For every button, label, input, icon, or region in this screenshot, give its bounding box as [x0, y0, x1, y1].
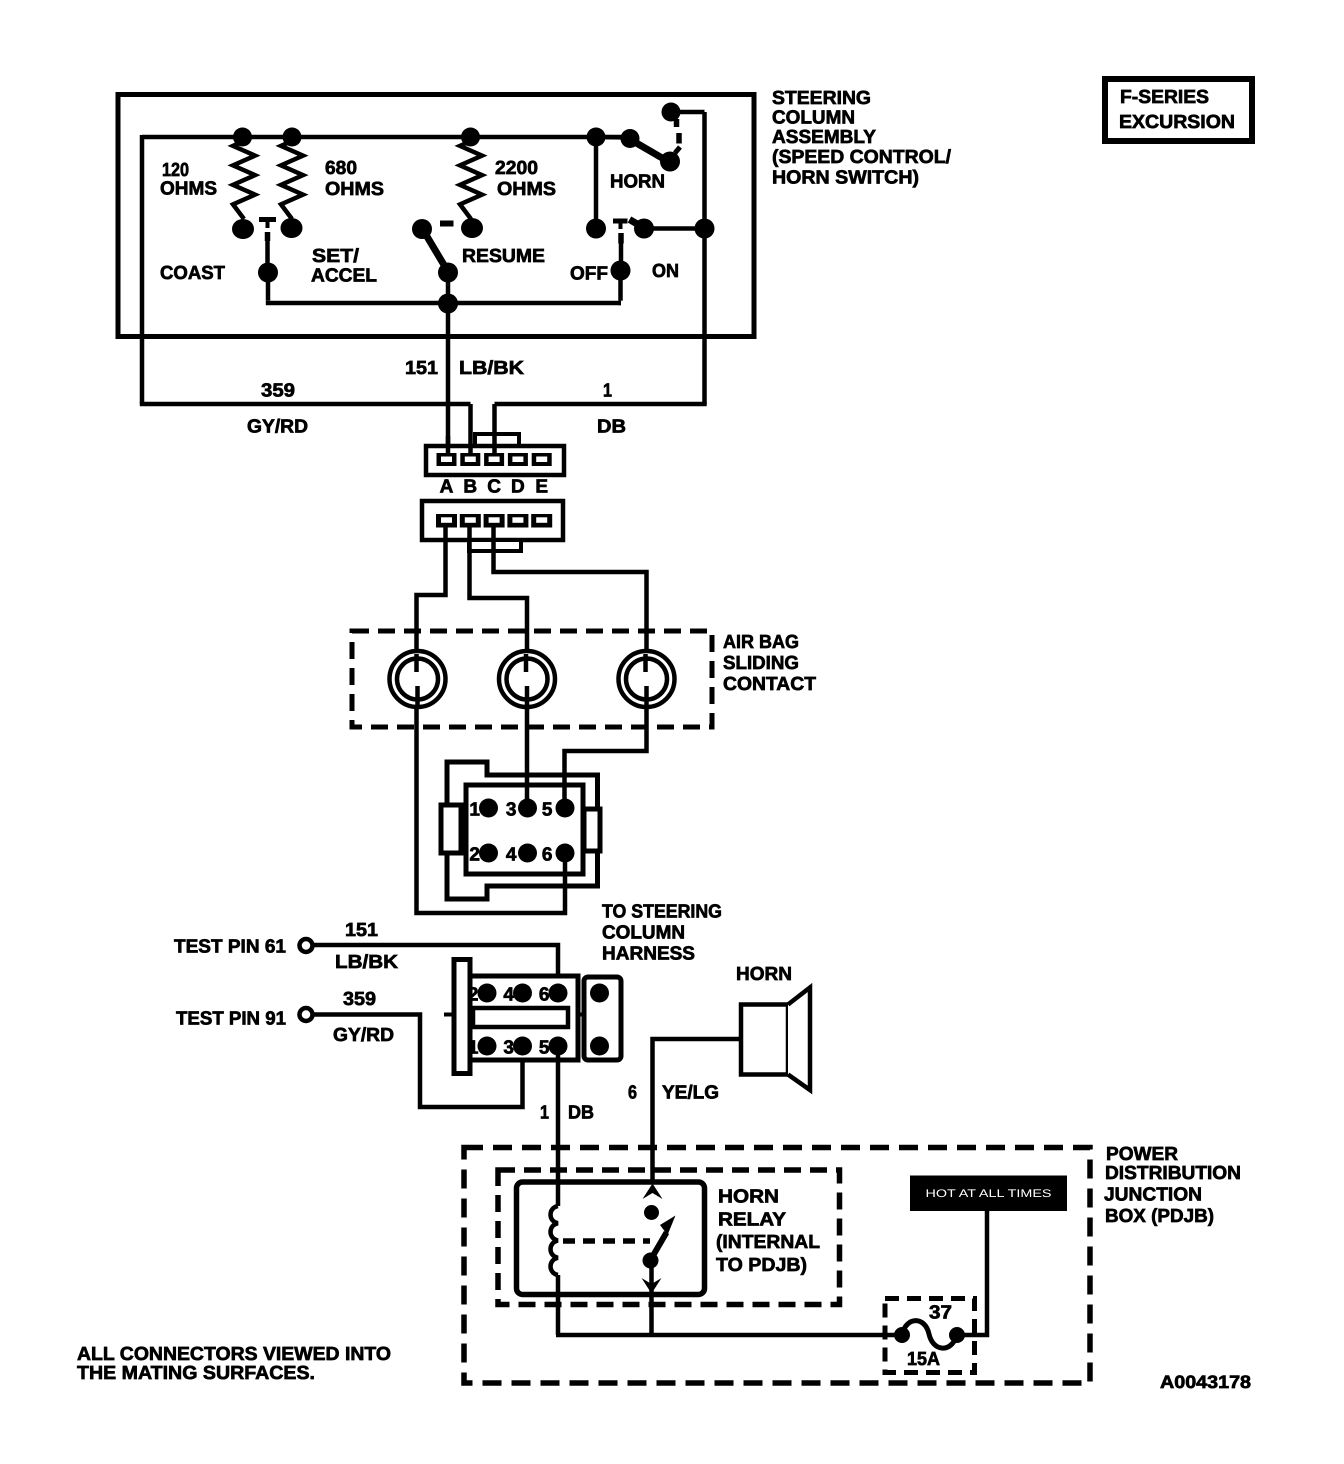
- wire resume pivot to rail: [446, 273, 451, 304]
- F-Series/Excursion badge box: [1105, 79, 1252, 141]
- node off-on left terminal: [586, 219, 606, 239]
- svg-text:1: 1: [540, 1103, 549, 1124]
- wire relay to fuse: [556, 1333, 899, 1338]
- node off: [611, 261, 631, 281]
- svg-text:6: 6: [539, 985, 550, 1006]
- svg-text:ASSEMBLY: ASSEMBLY: [772, 127, 876, 148]
- wire pin B to coil 2: [470, 526, 528, 654]
- resistor R3 2200 OHMS: [460, 141, 482, 219]
- svg-text:F-SERIES: F-SERIES: [1120, 87, 1209, 108]
- node resume pivot: [438, 263, 458, 283]
- wire test pin 91 to pin 3 (359): [313, 1015, 523, 1108]
- relay coil: [551, 1206, 559, 1275]
- wire coil 1 to pin 6: [417, 706, 566, 913]
- wire coil 3 to pin 5: [565, 706, 647, 802]
- pin 4 (C4): [513, 984, 532, 1003]
- resistor R2 680 OHMS: [281, 141, 303, 219]
- air bag sliding contact dashed box: [352, 631, 712, 727]
- coast/set-accel pole contact T-bar: [259, 217, 276, 222]
- svg-text:3: 3: [503, 1038, 514, 1059]
- svg-text:37: 37: [929, 1303, 952, 1324]
- wire 359 GY/RD horizontal: [140, 402, 471, 407]
- svg-text:2: 2: [468, 985, 479, 1006]
- sliding contact coil 3: [619, 651, 675, 707]
- svg-text:ACCEL: ACCEL: [311, 266, 377, 287]
- pin 1 (C4): [478, 1037, 497, 1056]
- svg-text:THE MATING SURFACES.: THE MATING SURFACES.: [77, 1363, 315, 1384]
- relay switch pivot: [643, 1253, 659, 1269]
- svg-text:2: 2: [469, 845, 480, 866]
- svg-text:1: 1: [603, 381, 612, 402]
- svg-text:2200: 2200: [495, 158, 538, 179]
- horn switch blade tip: [660, 152, 680, 172]
- node rail-horn-off junction: [587, 128, 606, 147]
- svg-text:D: D: [511, 477, 525, 498]
- svg-text:CONTACT: CONTACT: [723, 674, 816, 695]
- svg-text:359: 359: [261, 381, 295, 402]
- node rail-R2: [283, 128, 302, 147]
- wire bottom rail: [266, 301, 621, 306]
- svg-text:AIR BAG: AIR BAG: [723, 632, 799, 653]
- node junction 151 wire: [438, 294, 458, 314]
- node on junction: [695, 219, 715, 239]
- svg-text:151: 151: [345, 920, 378, 941]
- pin 1: [479, 799, 498, 818]
- svg-text:DB: DB: [568, 1103, 594, 1124]
- svg-text:4: 4: [506, 845, 517, 866]
- svg-text:5: 5: [542, 800, 553, 821]
- svg-text:HARNESS: HARNESS: [602, 944, 695, 965]
- node horn output: [662, 103, 681, 122]
- svg-text:OHMS: OHMS: [325, 179, 384, 200]
- svg-text:EXCURSION: EXCURSION: [1119, 112, 1235, 133]
- horn relay dashed box: [498, 1170, 840, 1305]
- svg-text:JUNCTION: JUNCTION: [1104, 1185, 1202, 1206]
- svg-text:6: 6: [542, 845, 553, 866]
- test pin 91 terminal: [300, 1008, 313, 1021]
- svg-text:TEST PIN 91: TEST PIN 91: [176, 1009, 286, 1030]
- pin 3: [518, 799, 537, 818]
- wire off down to bottom rail: [618, 271, 623, 301]
- svg-text:ON: ON: [652, 261, 679, 282]
- pin 5: [556, 799, 575, 818]
- relay switch blade: [647, 1233, 667, 1267]
- resume fixed contact: [412, 219, 432, 239]
- relay coil wire upper: [556, 1182, 561, 1206]
- wire rail junction down to off-on: [594, 137, 599, 228]
- svg-text:RELAY: RELAY: [718, 1210, 786, 1231]
- svg-text:YE/LG: YE/LG: [662, 1083, 719, 1104]
- off-on switch arm: [630, 220, 645, 229]
- svg-text:LB/BK: LB/BK: [335, 952, 398, 973]
- svg-text:LB/BK: LB/BK: [459, 358, 524, 379]
- svg-text:SLIDING: SLIDING: [723, 653, 799, 674]
- pin 6 (C4): [549, 984, 568, 1003]
- hot-at-all-times black box: [910, 1176, 1067, 1212]
- wire 359 GY/RD down to pin B: [468, 404, 473, 457]
- svg-text:A0043178: A0043178: [1160, 1372, 1251, 1392]
- svg-text:GY/RD: GY/RD: [333, 1025, 394, 1046]
- fuse element: [902, 1321, 957, 1349]
- svg-text:15A: 15A: [907, 1349, 940, 1370]
- svg-text:BOX (PDJB): BOX (PDJB): [1105, 1206, 1214, 1227]
- relay switch output wire: [649, 1261, 654, 1336]
- connector C3 (6-pin, column side) shell: [447, 762, 598, 899]
- pin 6: [556, 844, 575, 863]
- wire coil 2 to pin 3: [525, 706, 530, 802]
- steering column assembly box: [118, 95, 754, 337]
- wire left leg of rail down to harness: [140, 135, 145, 404]
- off contact wire: [619, 244, 624, 264]
- resume blade (R3 bottom contact): [461, 218, 483, 238]
- wire 1 DB horizontal: [495, 402, 707, 407]
- svg-text:OHMS: OHMS: [497, 179, 556, 200]
- node off-on pivot: [634, 219, 654, 239]
- svg-text:A: A: [440, 477, 454, 498]
- svg-text:ALL CONNECTORS VIEWED INTO: ALL CONNECTORS VIEWED INTO: [77, 1344, 391, 1365]
- horn switch stub below top node: [674, 119, 680, 127]
- sliding contact coil 2: [499, 651, 555, 707]
- wire right leg down to harness (circuit 1): [702, 112, 707, 404]
- horn switch arm: [633, 141, 663, 159]
- svg-text:RESUME: RESUME: [462, 246, 545, 267]
- relay switch output arrow: [642, 1278, 662, 1294]
- svg-text:SET/: SET/: [312, 246, 360, 267]
- wire pivot to right leg: [644, 226, 705, 231]
- svg-text:DISTRIBUTION: DISTRIBUTION: [1105, 1163, 1241, 1184]
- node horn pivot: [621, 129, 640, 148]
- fuse dashed box: [885, 1299, 975, 1373]
- wire horn to relay (6 YE/LG): [653, 1039, 742, 1184]
- svg-text:HORN: HORN: [718, 1187, 779, 1208]
- svg-text:E: E: [535, 477, 548, 498]
- pin 4: [518, 844, 537, 863]
- test pin 61 terminal: [300, 939, 313, 952]
- svg-text:COLUMN: COLUMN: [772, 108, 855, 129]
- PDJB dashed box: [464, 1148, 1090, 1384]
- svg-text:HORN SWITCH): HORN SWITCH): [772, 168, 919, 189]
- connector C2 (5-pin, harness side): [422, 501, 563, 540]
- node rail-R1: [233, 128, 252, 147]
- wire pin 5 to horn relay coil: [556, 1046, 561, 1206]
- svg-text:680: 680: [325, 158, 357, 179]
- relay switch input arrow: [643, 1184, 663, 1200]
- resistor R1 120 OHMS: [233, 141, 255, 219]
- wire 151 LB/BK down to pin A: [446, 303, 451, 455]
- wire top rail: [142, 135, 631, 140]
- connector C4 (6-pin, harness side) shell: [454, 960, 470, 1074]
- svg-text:(SPEED CONTROL/: (SPEED CONTROL/: [772, 147, 952, 168]
- svg-text:TO PDJB): TO PDJB): [716, 1255, 807, 1276]
- wire 1 DB down to pin C: [492, 404, 497, 455]
- svg-text:POWER: POWER: [1106, 1144, 1178, 1165]
- svg-text:HOT AT ALL TIMES: HOT AT ALL TIMES: [926, 1188, 1052, 1200]
- svg-text:GY/RD: GY/RD: [247, 417, 308, 438]
- fuse terminal left: [894, 1327, 910, 1343]
- svg-text:1: 1: [468, 1038, 479, 1059]
- set/accel blade (R2 bottom contact): [281, 218, 303, 238]
- svg-text:OFF: OFF: [570, 264, 608, 285]
- relay switch fixed contact: [644, 1205, 659, 1220]
- svg-text:COAST: COAST: [160, 263, 225, 284]
- off contact dash: [618, 233, 624, 244]
- pin 5 (C4): [549, 1037, 568, 1056]
- svg-text:(INTERNAL: (INTERNAL: [716, 1232, 820, 1253]
- svg-text:STEERING: STEERING: [772, 88, 871, 109]
- node coast/set-accel pole: [258, 263, 278, 283]
- relay coil-switch dashed link: [563, 1238, 650, 1244]
- svg-text:TEST PIN 61: TEST PIN 61: [174, 937, 286, 958]
- resume switch arm: [424, 232, 447, 271]
- horn relay box: [517, 1182, 705, 1295]
- node rail-R3: [461, 128, 480, 147]
- svg-text:HORN: HORN: [610, 172, 665, 193]
- svg-text:151: 151: [405, 358, 438, 379]
- svg-text:359: 359: [343, 989, 376, 1010]
- wire test pin 61 to pin 6 (151): [313, 945, 558, 983]
- svg-text:3: 3: [506, 800, 517, 821]
- resume dash: [440, 221, 454, 227]
- connector C1 (5-pin, column side): [475, 434, 519, 446]
- svg-text:TO STEERING: TO STEERING: [602, 902, 722, 923]
- wire pin C to coil 3: [494, 526, 647, 654]
- svg-text:C: C: [487, 477, 501, 498]
- wire fuse to hot feed: [957, 1211, 987, 1335]
- svg-text:HORN: HORN: [736, 964, 792, 985]
- relay coil wire lower: [556, 1275, 561, 1335]
- svg-text:B: B: [463, 477, 477, 498]
- horn speaker flare: [788, 988, 810, 1091]
- svg-text:COLUMN: COLUMN: [602, 923, 685, 944]
- off contact T-bar: [613, 219, 628, 224]
- wire horn output to right leg: [671, 110, 705, 115]
- pin 3 (C4): [513, 1037, 532, 1056]
- svg-text:4: 4: [503, 985, 514, 1006]
- wire rail to horn pivot: [596, 135, 631, 140]
- horn switch dash: [676, 133, 682, 144]
- svg-text:6: 6: [628, 1083, 637, 1104]
- pin 2 (C4): [478, 984, 497, 1003]
- horn speaker body: [741, 1005, 788, 1075]
- coast/set-accel pole dash: [265, 232, 271, 241]
- svg-text:5: 5: [539, 1038, 550, 1059]
- pin 2: [479, 844, 498, 863]
- svg-text:1: 1: [469, 800, 480, 821]
- wire pole down to bottom rail: [266, 273, 271, 301]
- svg-text:DB: DB: [597, 417, 626, 438]
- fuse terminal right: [949, 1327, 965, 1343]
- coast blade (R1 bottom contact): [232, 219, 254, 239]
- svg-text:OHMS: OHMS: [160, 179, 217, 200]
- sliding contact coil 1: [390, 651, 446, 707]
- C4 right cavity pins: [590, 984, 609, 1003]
- wire pin A to coil 1: [417, 526, 446, 654]
- coast/set-accel pole wire: [265, 241, 270, 264]
